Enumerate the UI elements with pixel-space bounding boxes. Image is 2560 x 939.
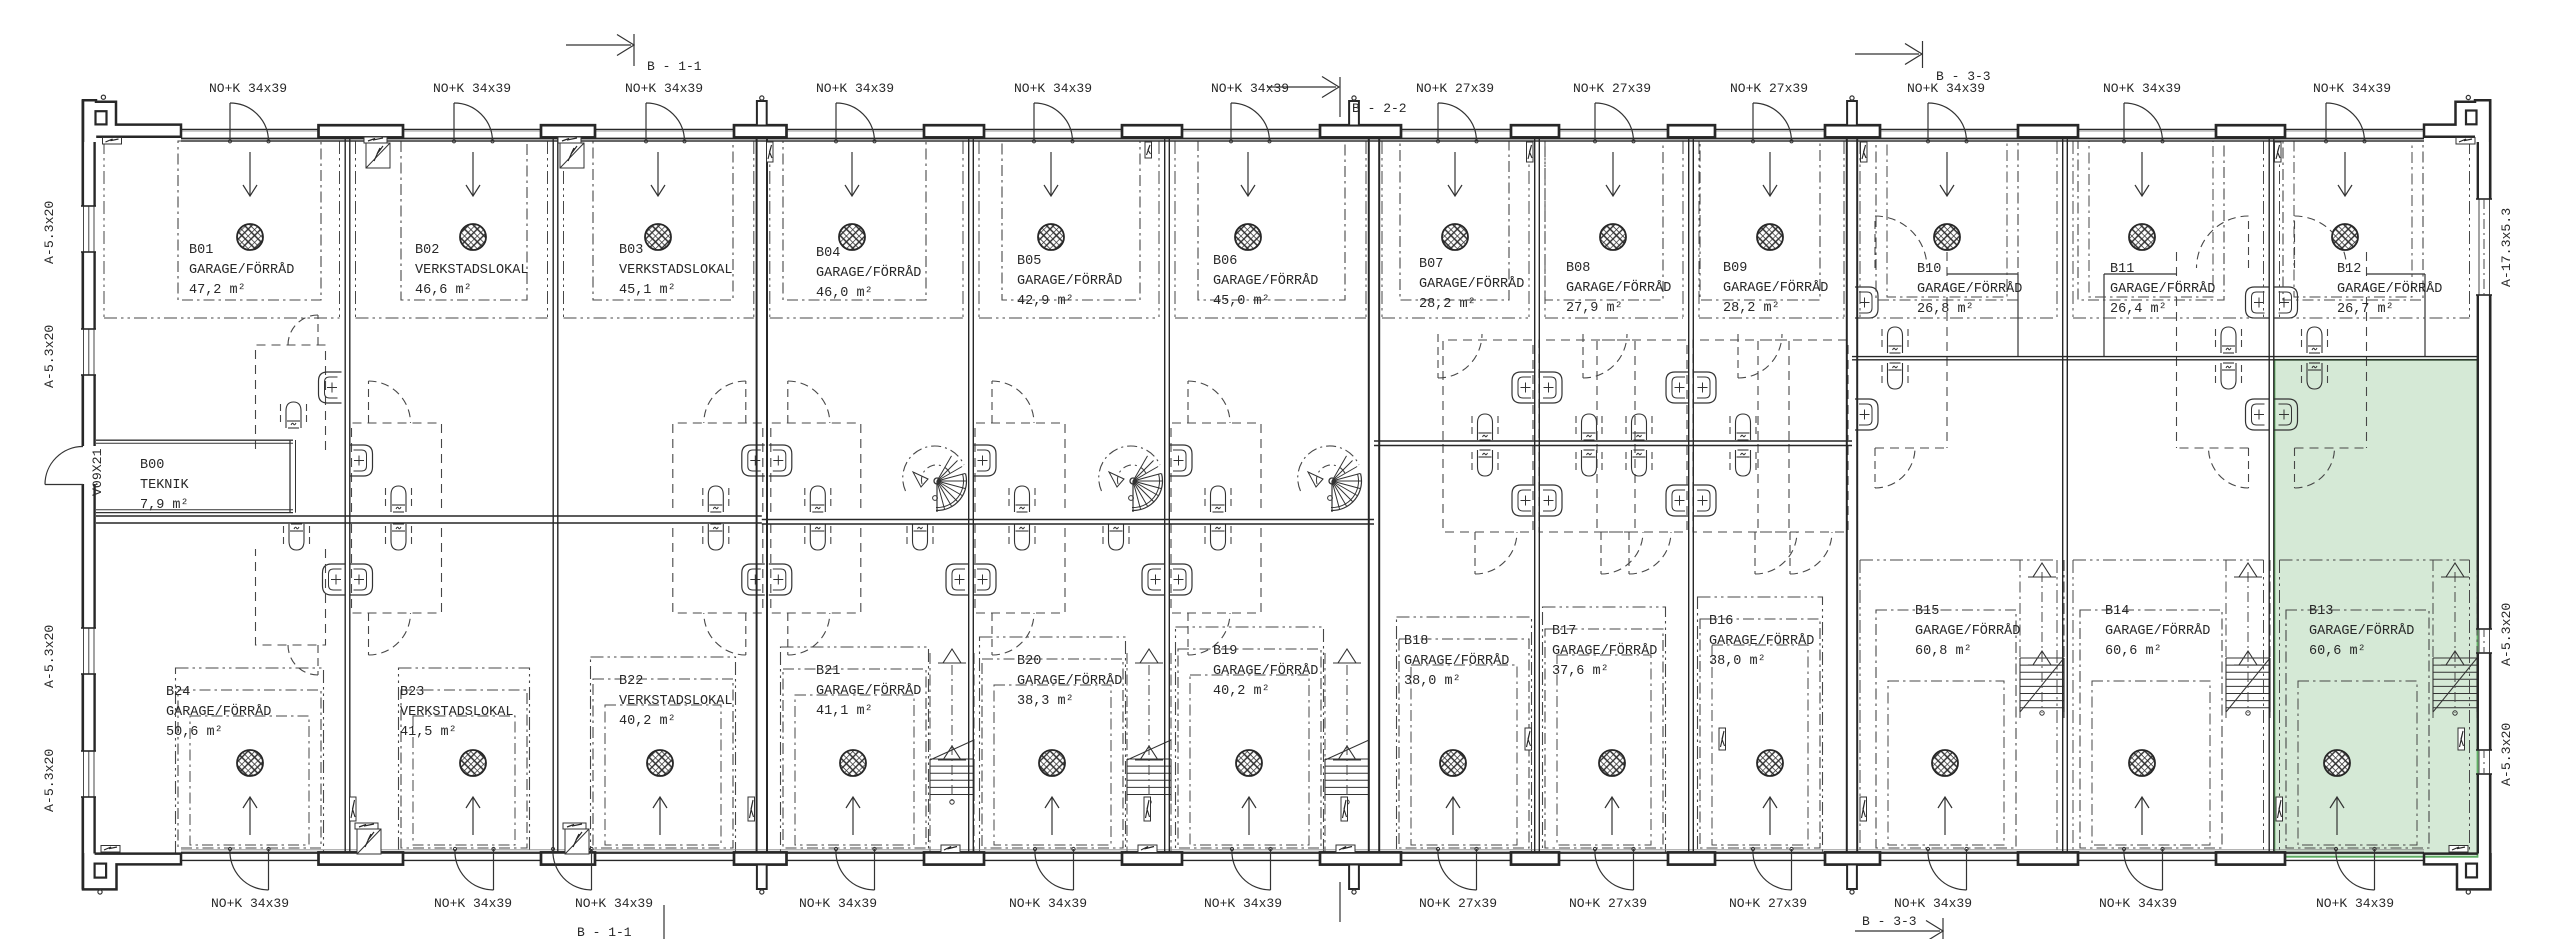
wash basin	[1666, 372, 1689, 403]
svg-text:27,9 m²: 27,9 m²	[1566, 301, 1623, 316]
svg-text:45,0 m²: 45,0 m²	[1213, 294, 1270, 309]
exterior door (bottom)	[493, 849, 495, 890]
bottom exterior wall	[181, 852, 2424, 854]
svg-text:A-17.3x5.3: A-17.3x5.3	[2499, 208, 2514, 287]
electrical riser symbol	[748, 797, 755, 821]
loft room outlines (dashed)	[1443, 340, 1533, 440]
unit B11 dashed box	[2078, 141, 2224, 300]
wash basin	[1666, 485, 1689, 516]
svg-text:60,6 m²: 60,6 m²	[2309, 644, 2366, 659]
wc toilet (facing up)	[906, 526, 908, 548]
door swing (dashed)	[1874, 216, 1876, 268]
svg-text:B - 1-1: B - 1-1	[577, 925, 632, 939]
wash basin	[1539, 372, 1562, 403]
wall stubs at section partitions	[757, 101, 767, 126]
wash basin	[1169, 564, 1192, 595]
svg-text:B15: B15	[1915, 604, 1939, 619]
svg-text:GARAGE/FÖRRÅD: GARAGE/FÖRRÅD	[816, 266, 921, 281]
door swing (dashed)	[1628, 532, 1630, 574]
section marker B-3-3 (top)	[1855, 53, 1919, 55]
floor drain (hatched circle)	[1442, 224, 1468, 250]
svg-text:60,8 m²: 60,8 m²	[1915, 644, 1972, 659]
section marker B-2-2 (top)	[1267, 86, 1336, 88]
svg-text:NO+K 34x39: NO+K 34x39	[2103, 81, 2181, 96]
floor drain (hatched circle)	[1934, 224, 1960, 250]
window centre dash-dot line	[2483, 199, 2485, 295]
svg-text:26,8 m²: 26,8 m²	[1917, 302, 1974, 317]
exterior door (top)	[453, 103, 455, 140]
svg-text:B09: B09	[1723, 261, 1747, 276]
wash basin	[1169, 445, 1192, 476]
svg-text:B - 1-1: B - 1-1	[647, 59, 702, 74]
direction arrow (down)	[472, 152, 474, 196]
wash basin	[742, 445, 765, 476]
unit B12 dashed box	[2283, 141, 2423, 300]
door swing (dashed)	[1874, 448, 1876, 488]
wc toilet (facing up)	[2215, 365, 2217, 387]
door swing (dashed)	[787, 381, 789, 423]
section marker B-1-1 (top)	[566, 44, 631, 46]
direction arrow (down)	[657, 152, 659, 196]
svg-text:GARAGE/FÖRRÅD: GARAGE/FÖRRÅD	[816, 684, 921, 699]
floor drain (hatched circle)	[237, 750, 263, 776]
exterior door (top)	[2123, 103, 2125, 140]
electrical riser symbol	[2275, 142, 2282, 162]
exterior door (top)	[229, 103, 231, 140]
svg-text:B21: B21	[816, 664, 840, 679]
svg-text:26,7 m²: 26,7 m²	[2337, 302, 2394, 317]
wc toilet (facing up)	[1102, 526, 1104, 548]
unit B02 dashed box	[401, 141, 527, 300]
room B13 highlight (green)	[2275, 360, 2478, 857]
exterior door (bottom)	[1966, 849, 1968, 890]
electrical riser symbol	[2458, 728, 2465, 750]
unit B04 dashed box	[783, 141, 926, 300]
svg-text:46,0 m²: 46,0 m²	[816, 286, 873, 301]
door swing (dashed)	[787, 613, 789, 655]
wc toilet (facing down)	[1008, 488, 1010, 510]
floor drain (hatched circle)	[2129, 750, 2155, 776]
exterior door (bottom)	[2374, 849, 2376, 890]
wash basin	[323, 564, 346, 595]
electrical riser symbol	[1341, 797, 1348, 821]
svg-text:NO+K 34x39: NO+K 34x39	[2316, 896, 2394, 911]
svg-text:NO+K 27x39: NO+K 27x39	[1729, 896, 1807, 911]
wc toilet (facing down)	[1881, 329, 1883, 351]
svg-text:V09X21: V09X21	[90, 448, 105, 496]
door swing (dashed)	[1187, 381, 1189, 423]
svg-text:26,4 m²: 26,4 m²	[2110, 302, 2167, 317]
top-left corner detail	[83, 100, 181, 142]
svg-text:NO+K 34x39: NO+K 34x39	[1907, 81, 1985, 96]
exterior door (top)	[1927, 103, 1929, 140]
svg-text:NO+K 34x39: NO+K 34x39	[799, 896, 877, 911]
unit B24 dashed box	[176, 668, 324, 853]
door swing (dashed)	[1754, 532, 1756, 574]
unit B01 dashed box	[178, 141, 321, 300]
door swing (dashed)	[1600, 532, 1602, 574]
svg-text:41,1 m²: 41,1 m²	[816, 704, 873, 719]
straight stair	[929, 653, 931, 854]
wc toilet (facing up)	[1471, 452, 1473, 474]
svg-text:B06: B06	[1213, 254, 1237, 269]
wc toilet (facing down)	[1471, 416, 1473, 438]
unit B20 dashed box	[980, 637, 1126, 853]
svg-text:60,6 m²: 60,6 m²	[2105, 644, 2162, 659]
unit B13 dashed box	[2280, 559, 2470, 561]
floor drain (hatched circle)	[1440, 750, 1466, 776]
floor drain (hatched circle)	[1757, 750, 1783, 776]
floor drain (hatched circle)	[460, 224, 486, 250]
bottom stub	[1349, 865, 1359, 890]
spiral stair	[1298, 446, 1359, 491]
svg-text:38,0 m²: 38,0 m²	[1709, 654, 1766, 669]
bottom glazing line	[181, 849, 2424, 851]
svg-text:B10: B10	[1917, 262, 1941, 277]
section mid walls	[96, 515, 762, 517]
bottom pillar	[1825, 852, 1880, 864]
floor drain (hatched circle)	[839, 224, 865, 250]
straight stair	[1324, 653, 1326, 854]
loft room outline (dashed)	[352, 423, 442, 512]
svg-text:28,2 m²: 28,2 m²	[1419, 297, 1476, 312]
svg-text:B05: B05	[1017, 254, 1041, 269]
svg-text:NO+K 34x39: NO+K 34x39	[1211, 81, 1289, 96]
bottom pillar	[319, 852, 404, 864]
bottom pillar	[1668, 852, 1715, 864]
wash basin	[2275, 287, 2298, 318]
svg-text:50,6 m²: 50,6 m²	[166, 725, 223, 740]
floor drain (hatched circle)	[1039, 750, 1065, 776]
floor drain (hatched circle)	[1599, 750, 1625, 776]
wc toilet (facing down)	[2215, 329, 2217, 351]
unit B07 dashed box	[1400, 141, 1509, 300]
loft room outlines (dashed)	[1597, 340, 1687, 440]
bottom pillar	[2018, 852, 2078, 864]
floor drain (hatched circle)	[1932, 750, 1958, 776]
wash basin	[973, 564, 996, 595]
svg-text:NO+K 34x39: NO+K 34x39	[433, 81, 511, 96]
svg-text:NO+K 27x39: NO+K 27x39	[1419, 896, 1497, 911]
unit B10 dashed box	[1876, 141, 2018, 300]
wc toilet (facing down)	[1625, 416, 1627, 438]
svg-text:B12: B12	[2337, 262, 2361, 277]
direction arrow (down)	[851, 152, 853, 196]
svg-text:B - 3-3: B - 3-3	[1862, 914, 1917, 929]
wash basin	[2246, 399, 2269, 430]
unit B22 dashed box	[591, 657, 736, 853]
svg-text:B - 2-2: B - 2-2	[1352, 101, 1407, 116]
bottom-left corner detail	[83, 853, 181, 889]
unit B23 dashed box	[399, 668, 530, 853]
svg-text:NO+K 34x39: NO+K 34x39	[816, 81, 894, 96]
top exterior wall	[181, 129, 2424, 131]
wash basin	[769, 445, 792, 476]
electrical riser symbol	[1525, 728, 1532, 750]
wash basin	[1693, 372, 1716, 403]
svg-text:NO+K 27x39: NO+K 27x39	[1569, 896, 1647, 911]
electrical riser symbol	[1719, 728, 1726, 750]
unit B19 dashed box	[1176, 627, 1324, 853]
door swing (dashed)	[745, 613, 747, 655]
floor drain (hatched circle)	[645, 224, 671, 250]
wc toilet (facing up)	[1008, 526, 1010, 548]
svg-text:B18: B18	[1404, 634, 1428, 649]
stair base electrical boxes	[941, 845, 960, 853]
svg-text:GARAGE/FÖRRÅD: GARAGE/FÖRRÅD	[2309, 624, 2414, 639]
wash basin	[1512, 372, 1535, 403]
electrical riser symbol	[767, 142, 774, 162]
spiral stair	[903, 446, 964, 491]
svg-text:B22: B22	[619, 674, 643, 689]
wc toilet (facing up)	[1575, 452, 1577, 474]
electrical cabinet symbol	[364, 137, 387, 143]
unit B08 dashed box	[1545, 141, 1663, 300]
right exterior wall	[2489, 100, 2492, 200]
B00 room TEKNIK	[96, 439, 293, 441]
direction arrow (down)	[1454, 152, 1456, 196]
section marker B-1-1 (bottom)	[663, 905, 665, 939]
svg-text:28,2 m²: 28,2 m²	[1723, 301, 1780, 316]
floor drain (hatched circle)	[1038, 224, 1064, 250]
svg-text:VERKSTADSLOKAL: VERKSTADSLOKAL	[400, 705, 513, 720]
unit B16 dashed box	[1698, 597, 1823, 853]
loft room outline (dashed)	[771, 423, 861, 512]
door swing (dashed)	[2294, 216, 2296, 268]
left exterior wall	[82, 100, 85, 207]
door swing (dashed)	[1582, 334, 1584, 378]
svg-text:GARAGE/FÖRRÅD: GARAGE/FÖRRÅD	[1017, 674, 1122, 689]
exterior door (bottom)	[591, 849, 593, 890]
exterior door (top)	[1752, 103, 1754, 140]
wash basin	[1142, 564, 1165, 595]
wc toilet (facing up)	[1729, 452, 1731, 474]
floor drain (hatched circle)	[1757, 224, 1783, 250]
svg-text:NO+K 34x39: NO+K 34x39	[1009, 896, 1087, 911]
svg-text:NO+K 34x39: NO+K 34x39	[1894, 896, 1972, 911]
wc toilet (facing up)	[283, 526, 285, 548]
straight stair	[1126, 653, 1128, 854]
svg-text:A-5.3x20: A-5.3x20	[2499, 723, 2514, 786]
svg-text:GARAGE/FÖRRÅD: GARAGE/FÖRRÅD	[166, 705, 271, 720]
direction arrow (up)	[1051, 797, 1053, 835]
direction arrow (up)	[852, 797, 854, 835]
corner electrical marks	[103, 138, 122, 145]
electrical cabinet symbol	[558, 137, 581, 143]
exterior door (bottom)	[2162, 849, 2164, 890]
floor drain (hatched circle)	[2324, 750, 2350, 776]
wash basin	[946, 564, 969, 595]
svg-text:VERKSTADSLOKAL: VERKSTADSLOKAL	[619, 263, 732, 278]
exterior door (bottom)	[1270, 849, 1272, 890]
wc toilet (facing down)	[702, 488, 704, 510]
bottom pillar	[924, 852, 984, 864]
wash basin	[1693, 485, 1716, 516]
exterior door (bottom)	[1073, 849, 1075, 890]
wc toilet (facing up)	[1204, 526, 1206, 548]
door swing (dashed)	[368, 613, 370, 655]
svg-text:NO+K 34x39: NO+K 34x39	[2099, 896, 2177, 911]
exterior door (top)	[2325, 103, 2327, 140]
direction arrow (down)	[1769, 152, 1771, 196]
door swing (dashed)	[1437, 334, 1439, 378]
electrical riser symbol	[1861, 142, 1868, 162]
wc toilet (facing down)	[804, 488, 806, 510]
door swing (dashed)	[1187, 613, 1189, 655]
unit B05 dashed box	[1002, 141, 1140, 300]
svg-text:NO+K 34x39: NO+K 34x39	[434, 896, 512, 911]
svg-text:40,2 m²: 40,2 m²	[1213, 684, 1270, 699]
wash basin	[1512, 485, 1535, 516]
svg-text:B19: B19	[1213, 644, 1237, 659]
direction arrow (up)	[1452, 797, 1454, 835]
loft outline (dashed)	[1946, 252, 1948, 448]
svg-text:NO+K 34x39: NO+K 34x39	[209, 81, 287, 96]
svg-text:NO+K 34x39: NO+K 34x39	[1204, 896, 1282, 911]
svg-text:NO+K 27x39: NO+K 27x39	[1416, 81, 1494, 96]
svg-text:GARAGE/FÖRRÅD: GARAGE/FÖRRÅD	[1917, 282, 2022, 297]
svg-text:B24: B24	[166, 685, 190, 700]
svg-text:B07: B07	[1419, 257, 1443, 272]
wash basin	[1855, 399, 1878, 430]
top glazing line	[181, 138, 2424, 140]
unit B03 dashed box	[593, 141, 733, 300]
wc toilet (facing up)	[1881, 365, 1883, 387]
svg-text:B14: B14	[2105, 604, 2129, 619]
svg-text:38,3 m²: 38,3 m²	[1017, 694, 1074, 709]
direction arrow (up)	[1944, 797, 1946, 835]
wc toilet (facing down)	[385, 488, 387, 510]
wc toilet (facing up)	[702, 526, 704, 548]
svg-text:46,6 m²: 46,6 m²	[415, 283, 472, 298]
svg-text:NO+K 34x39: NO+K 34x39	[625, 81, 703, 96]
svg-text:B02: B02	[415, 243, 439, 258]
left wall windows	[83, 206, 85, 252]
wash basin	[769, 564, 792, 595]
wc toilet (facing down)	[1575, 416, 1577, 438]
electrical riser symbol	[1527, 142, 1534, 162]
unit B06 dashed box	[1198, 141, 1345, 300]
svg-text:VERKSTADSLOKAL: VERKSTADSLOKAL	[415, 263, 528, 278]
svg-text:VERKSTADSLOKAL: VERKSTADSLOKAL	[619, 694, 732, 709]
svg-text:GARAGE/FÖRRÅD: GARAGE/FÖRRÅD	[2105, 624, 2210, 639]
floor drain (hatched circle)	[647, 750, 673, 776]
bottom pillar	[1122, 852, 1182, 864]
entrance door V09X21	[45, 447, 83, 485]
direction arrow (up)	[659, 797, 661, 835]
svg-text:A-5.3x20: A-5.3x20	[42, 625, 57, 688]
svg-text:B03: B03	[619, 243, 643, 258]
door swing (dashed)	[317, 645, 319, 675]
solid loft walls S4	[1947, 273, 2018, 275]
svg-text:B17: B17	[1552, 624, 1576, 639]
svg-text:GARAGE/FÖRRÅD: GARAGE/FÖRRÅD	[1017, 274, 1122, 289]
wash basin	[1855, 287, 1878, 318]
svg-text:B23: B23	[400, 685, 424, 700]
bottom stub	[1847, 865, 1857, 890]
floor drain (hatched circle)	[2332, 224, 2358, 250]
door swing (dashed)	[368, 381, 370, 423]
loft room outline (dashed)	[1758, 340, 1848, 440]
loft room outline (dashed)	[1171, 423, 1261, 512]
svg-text:GARAGE/FÖRRÅD: GARAGE/FÖRRÅD	[1709, 634, 1814, 649]
exterior door (top)	[1033, 103, 1035, 140]
svg-text:A-5.3x20: A-5.3x20	[2499, 603, 2514, 666]
straight stair	[2225, 560, 2227, 718]
door swing (dashed)	[1789, 532, 1791, 574]
unit B15 dashed box	[1860, 559, 2057, 561]
door swing (dashed)	[317, 315, 319, 345]
top wall pillars	[319, 125, 404, 137]
wc toilet (facing down)	[1204, 488, 1206, 510]
unit B18 dashed box	[1397, 617, 1532, 853]
interior fixtures cluster around B01/B24	[256, 345, 326, 450]
svg-text:A-5.3x20: A-5.3x20	[42, 749, 57, 812]
svg-text:B20: B20	[1017, 654, 1041, 669]
wash basin	[973, 445, 996, 476]
unit B14 dashed box	[2073, 559, 2264, 561]
door swing (dashed)	[745, 381, 747, 423]
wc toilet (facing down)	[280, 404, 282, 426]
svg-text:B11: B11	[2110, 262, 2134, 277]
svg-text:B04: B04	[816, 246, 840, 261]
section marker B-2-2 (bottom)	[1339, 882, 1341, 922]
floor drain (hatched circle)	[460, 750, 486, 776]
svg-text:NO+K 34x39: NO+K 34x39	[575, 896, 653, 911]
direction arrow (up)	[1248, 797, 1250, 835]
direction arrow (down)	[249, 152, 251, 196]
direction arrow (down)	[1946, 152, 1948, 196]
direction arrow (up)	[472, 797, 474, 835]
exterior door (bottom)	[1633, 849, 1635, 890]
exterior door (top)	[835, 103, 837, 140]
svg-text:B08: B08	[1566, 261, 1590, 276]
loft room outline (dashed)	[975, 423, 1065, 512]
svg-text:41,5 m²: 41,5 m²	[400, 725, 457, 740]
direction arrow (up)	[2141, 797, 2143, 835]
svg-text:NO+K 34x39: NO+K 34x39	[211, 896, 289, 911]
spiral stair	[1099, 446, 1160, 491]
loft outline (dashed)	[2366, 252, 2368, 448]
svg-text:GARAGE/FÖRRÅD: GARAGE/FÖRRÅD	[1404, 654, 1509, 669]
electrical riser symbol	[2276, 797, 2283, 821]
floor drain (hatched circle)	[840, 750, 866, 776]
svg-text:GARAGE/FÖRRÅD: GARAGE/FÖRRÅD	[1723, 281, 1828, 296]
wash basin	[742, 564, 765, 595]
wash basin	[350, 445, 373, 476]
direction arrow (up)	[1769, 797, 1771, 835]
floor drain (hatched circle)	[1235, 224, 1261, 250]
bottom-right corner detail	[2424, 853, 2491, 889]
direction arrow (up)	[1611, 797, 1613, 835]
svg-text:A-5.3x20: A-5.3x20	[42, 325, 57, 388]
wc toilet (facing up)	[2301, 365, 2303, 387]
bottom stub	[757, 865, 767, 890]
straight stair	[2432, 560, 2434, 718]
svg-text:GARAGE/FÖRRÅD: GARAGE/FÖRRÅD	[1915, 624, 2020, 639]
door swing (dashed)	[991, 613, 993, 655]
electrical riser symbol	[1145, 142, 1152, 158]
unit B09 dashed box	[1700, 141, 1820, 300]
svg-text:7,9 m²: 7,9 m²	[140, 498, 189, 513]
wash basin	[2275, 399, 2298, 430]
svg-text:42,9 m²: 42,9 m²	[1017, 294, 1074, 309]
bottom pillar	[541, 852, 595, 864]
svg-text:GARAGE/FÖRRÅD: GARAGE/FÖRRÅD	[189, 263, 294, 278]
direction arrow (down)	[1612, 152, 1614, 196]
svg-text:NO+K 34x39: NO+K 34x39	[1014, 81, 1092, 96]
bottom pillar	[2216, 852, 2285, 864]
